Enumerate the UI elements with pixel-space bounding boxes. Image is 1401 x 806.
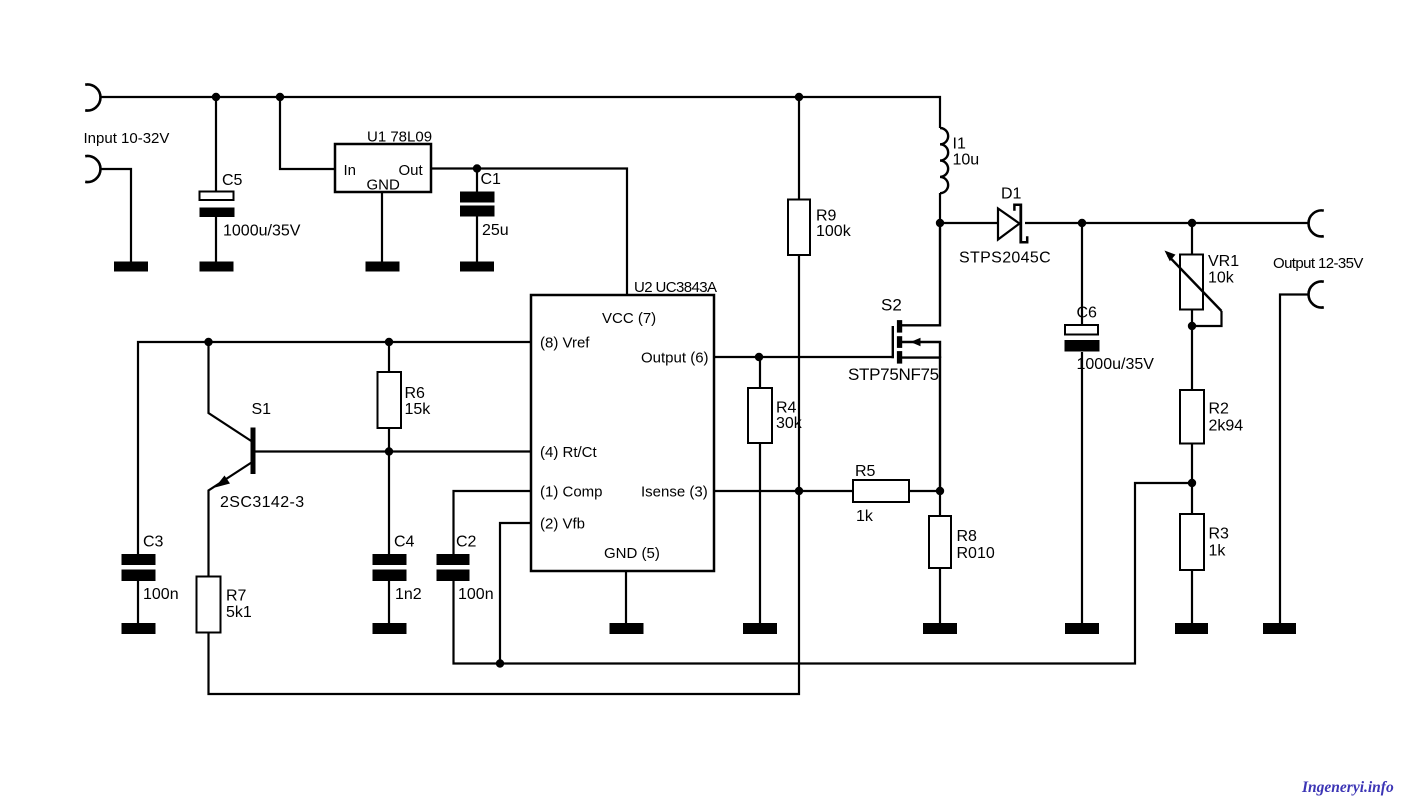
svg-text:(8) Vref: (8) Vref	[540, 335, 590, 352]
input connector top arc	[85, 85, 100, 111]
ground C5	[200, 262, 234, 272]
wire inductor bottom to D1 node	[939, 193, 941, 223]
svg-text:Isense (3): Isense (3)	[641, 484, 708, 501]
output connector top arc	[1309, 210, 1324, 236]
svg-text:C3: C3	[143, 534, 164, 551]
diode D1 schottky cathode bar	[1019, 204, 1022, 244]
svg-text:10u: 10u	[953, 152, 980, 169]
MOSFET S2 body diode wire	[902, 342, 940, 358]
resistor R9	[788, 200, 852, 256]
svg-text:30k: 30k	[776, 415, 803, 432]
wire Output pin 6 to gate	[714, 356, 892, 358]
svg-text:100k: 100k	[816, 223, 852, 240]
svg-text:Input 10-32V: Input 10-32V	[84, 130, 170, 147]
svg-text:C5: C5	[222, 172, 243, 189]
svg-text:GND: GND	[367, 177, 401, 194]
wire GND pin 5	[625, 571, 627, 623]
resistor R4	[748, 388, 803, 443]
ground U2	[610, 623, 644, 634]
wire C6 upper	[1081, 223, 1083, 325]
svg-text:S1: S1	[252, 401, 272, 418]
svg-text:STP75NF75: STP75NF75	[848, 365, 939, 384]
ground C4	[373, 623, 407, 634]
input connector bottom arc	[85, 156, 100, 182]
svg-text:(4) Rt/Ct: (4) Rt/Ct	[540, 444, 598, 461]
svg-text:R8: R8	[957, 528, 978, 545]
node dot C5/top rail	[212, 93, 220, 101]
svg-text:I1: I1	[953, 136, 966, 153]
wire S1 collector	[209, 342, 253, 442]
node dot VR1/output rail	[1188, 219, 1196, 227]
wire R4 top	[759, 357, 761, 388]
wire R9 top	[798, 97, 800, 200]
svg-text:Output 12-35V: Output 12-35V	[1273, 255, 1363, 272]
wire C3 lower	[137, 581, 139, 623]
resistor R8	[929, 516, 995, 568]
svg-text:R9: R9	[816, 208, 837, 225]
svg-text:C2: C2	[456, 534, 477, 551]
diode D1 triangle	[998, 209, 1020, 240]
capacitor C1	[460, 171, 509, 239]
op-amp U2 UC3843A box	[531, 279, 717, 571]
node dot C6/output rail	[1078, 219, 1086, 227]
node dot inductor/diode/drain	[936, 219, 944, 227]
svg-text:R3: R3	[1209, 526, 1230, 543]
wire C1 branch lower	[476, 217, 478, 263]
ground C1	[460, 262, 494, 272]
svg-text:(2) Vfb: (2) Vfb	[540, 516, 585, 533]
wire Vref line pin 8 to C3	[138, 342, 531, 554]
wire U1 Out to VCC pin	[431, 169, 627, 296]
transistor S1	[215, 401, 305, 511]
MOSFET S2 source wire	[902, 358, 940, 491]
svg-text:GND (5): GND (5)	[604, 545, 660, 562]
wire R7 bottom to Isense riser	[209, 491, 800, 694]
svg-text:R7: R7	[226, 588, 247, 605]
ground output	[1263, 623, 1296, 634]
svg-text:(1) Comp: (1) Comp	[540, 484, 603, 501]
wire R3 bottom	[1191, 570, 1193, 623]
ground C6	[1065, 623, 1099, 634]
svg-text:100n: 100n	[458, 586, 494, 603]
capacitor C5	[200, 172, 301, 240]
node dot R9/Isense	[795, 487, 803, 495]
node dot R6/Vref	[385, 338, 393, 346]
potentiometer VR1 arrow line	[1168, 256, 1222, 312]
svg-text:Output (6): Output (6)	[641, 350, 709, 367]
diode D1 labels	[959, 186, 1051, 267]
svg-text:1n2: 1n2	[395, 586, 422, 603]
wire R2 to R3	[1191, 444, 1193, 515]
svg-text:25u: 25u	[482, 222, 509, 239]
svg-text:R2: R2	[1209, 401, 1230, 418]
wire C5 branch lower	[215, 217, 217, 263]
wire D1 anode	[940, 222, 997, 224]
svg-text:1k: 1k	[856, 508, 874, 525]
wire R4 bottom	[759, 443, 761, 623]
node dot R5/R8/source	[936, 487, 944, 495]
svg-text:R6: R6	[405, 385, 426, 402]
svg-text:2SC3142-3: 2SC3142-3	[220, 494, 305, 511]
ground R3	[1175, 623, 1208, 634]
svg-text:S2: S2	[881, 296, 902, 315]
node dot C1/U1 Out	[473, 164, 481, 172]
svg-text:1000u/35V: 1000u/35V	[1077, 356, 1155, 373]
svg-text:STPS2045C: STPS2045C	[959, 250, 1051, 267]
capacitor C2	[437, 534, 494, 604]
svg-text:VR1: VR1	[1208, 253, 1239, 270]
wire Isense pin 3 to R5	[714, 490, 853, 492]
node dot R4/Output6	[755, 353, 763, 361]
node dot Vfb/feedback	[496, 659, 504, 667]
wire C4 lower	[388, 581, 390, 623]
resistor R6	[378, 372, 432, 428]
svg-text:Ingeneryi.info: Ingeneryi.info	[1301, 779, 1394, 796]
MOSFET S2 bars	[848, 296, 939, 385]
svg-text:In: In	[344, 162, 357, 179]
wire input lower to ground	[100, 169, 131, 262]
wire C6 lower	[1081, 352, 1083, 623]
svg-text:C4: C4	[394, 534, 415, 551]
node dot R2/R3	[1188, 479, 1196, 487]
svg-text:10k: 10k	[1208, 270, 1235, 287]
resistor R2	[1180, 390, 1243, 444]
wire S1 emitter	[209, 462, 254, 577]
ground C3	[122, 623, 156, 634]
node dot S1 collector/Vref	[204, 338, 212, 346]
ground U1	[366, 262, 400, 272]
ground bars	[114, 262, 1296, 635]
node dot R6/RtCt	[385, 447, 393, 455]
wire Vfb pin 2 down	[500, 523, 531, 664]
node dot VR1 wiper	[1188, 322, 1196, 330]
wire R9 bottom	[798, 255, 800, 491]
resistor R5	[853, 463, 909, 525]
resistor R3	[1180, 514, 1229, 570]
diode D1 schottky top hook	[1014, 205, 1020, 211]
svg-text:1k: 1k	[1209, 543, 1227, 560]
wire R6 top	[388, 342, 390, 372]
wire C1 branch upper	[476, 169, 478, 193]
MOSFET S2 drain wire	[902, 223, 940, 325]
capacitor C6	[1065, 305, 1155, 374]
wire R8 bottom	[939, 568, 941, 623]
svg-text:C6: C6	[1077, 305, 1098, 322]
wire S1 base to Rt/Ct pin 4	[255, 450, 531, 452]
node dot R9/top rail	[795, 93, 803, 101]
svg-text:R5: R5	[855, 463, 876, 480]
inductor I1	[940, 128, 948, 193]
svg-text:VCC (7): VCC (7)	[602, 310, 656, 327]
svg-text:U1 78L09: U1 78L09	[367, 129, 432, 146]
output connector bottom arc	[1309, 282, 1324, 308]
svg-text:5k1: 5k1	[226, 604, 252, 621]
ground R8	[923, 623, 957, 634]
potentiometer VR1 body	[1165, 251, 1240, 312]
resistor R7	[197, 577, 252, 633]
wire U1 In branch	[280, 97, 335, 169]
diode D1 schottky bottom hook	[1021, 236, 1027, 242]
wire top rail from input to inductor	[100, 97, 940, 128]
node dot U1-In/top rail	[276, 93, 284, 101]
wire R6 bottom to C4	[388, 428, 390, 554]
wire VR1 bottom to R2	[1191, 310, 1193, 391]
svg-text:U2 UC3843A: U2 UC3843A	[634, 279, 717, 296]
svg-text:100n: 100n	[143, 586, 179, 603]
wire Comp pin 1 to C2 top	[454, 491, 532, 554]
capacitor C4	[373, 534, 422, 604]
wire R8 top	[939, 491, 941, 516]
wire R5 right to source node	[909, 490, 940, 492]
wire VR1 top	[1191, 223, 1193, 255]
svg-text:R4: R4	[776, 400, 797, 417]
U1 78L09 regulator box	[335, 129, 432, 194]
wire C2 bottom feedback line to R2/R3 node	[454, 483, 1193, 664]
inductor I1 labels	[953, 136, 980, 169]
svg-text:2k94: 2k94	[1209, 418, 1244, 435]
wire U1 GND pin	[381, 192, 383, 262]
svg-text:15k: 15k	[405, 401, 432, 418]
svg-text:C1: C1	[481, 171, 502, 188]
wire D1 cathode to output	[1025, 222, 1308, 224]
ground R4	[743, 623, 777, 634]
svg-text:1000u/35V: 1000u/35V	[223, 223, 301, 240]
MOSFET S2 gate line	[892, 326, 894, 358]
ground input	[114, 262, 148, 272]
wire output lower connector to ground	[1280, 295, 1308, 624]
svg-text:Out: Out	[399, 162, 424, 179]
capacitor C3	[122, 534, 179, 604]
svg-text:D1: D1	[1001, 186, 1022, 203]
wire VR1 wiper jog	[1192, 311, 1222, 326]
wire C5 branch upper	[215, 97, 217, 192]
svg-text:R010: R010	[957, 545, 995, 562]
